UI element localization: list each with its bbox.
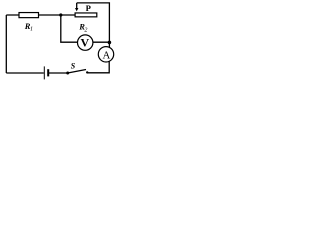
svg-text:1: 1 [30, 26, 33, 32]
svg-text:P: P [86, 3, 91, 13]
svg-text:S: S [71, 62, 76, 71]
svg-text:V: V [80, 35, 89, 49]
svg-text:A: A [102, 50, 110, 62]
svg-text:2: 2 [84, 27, 87, 33]
